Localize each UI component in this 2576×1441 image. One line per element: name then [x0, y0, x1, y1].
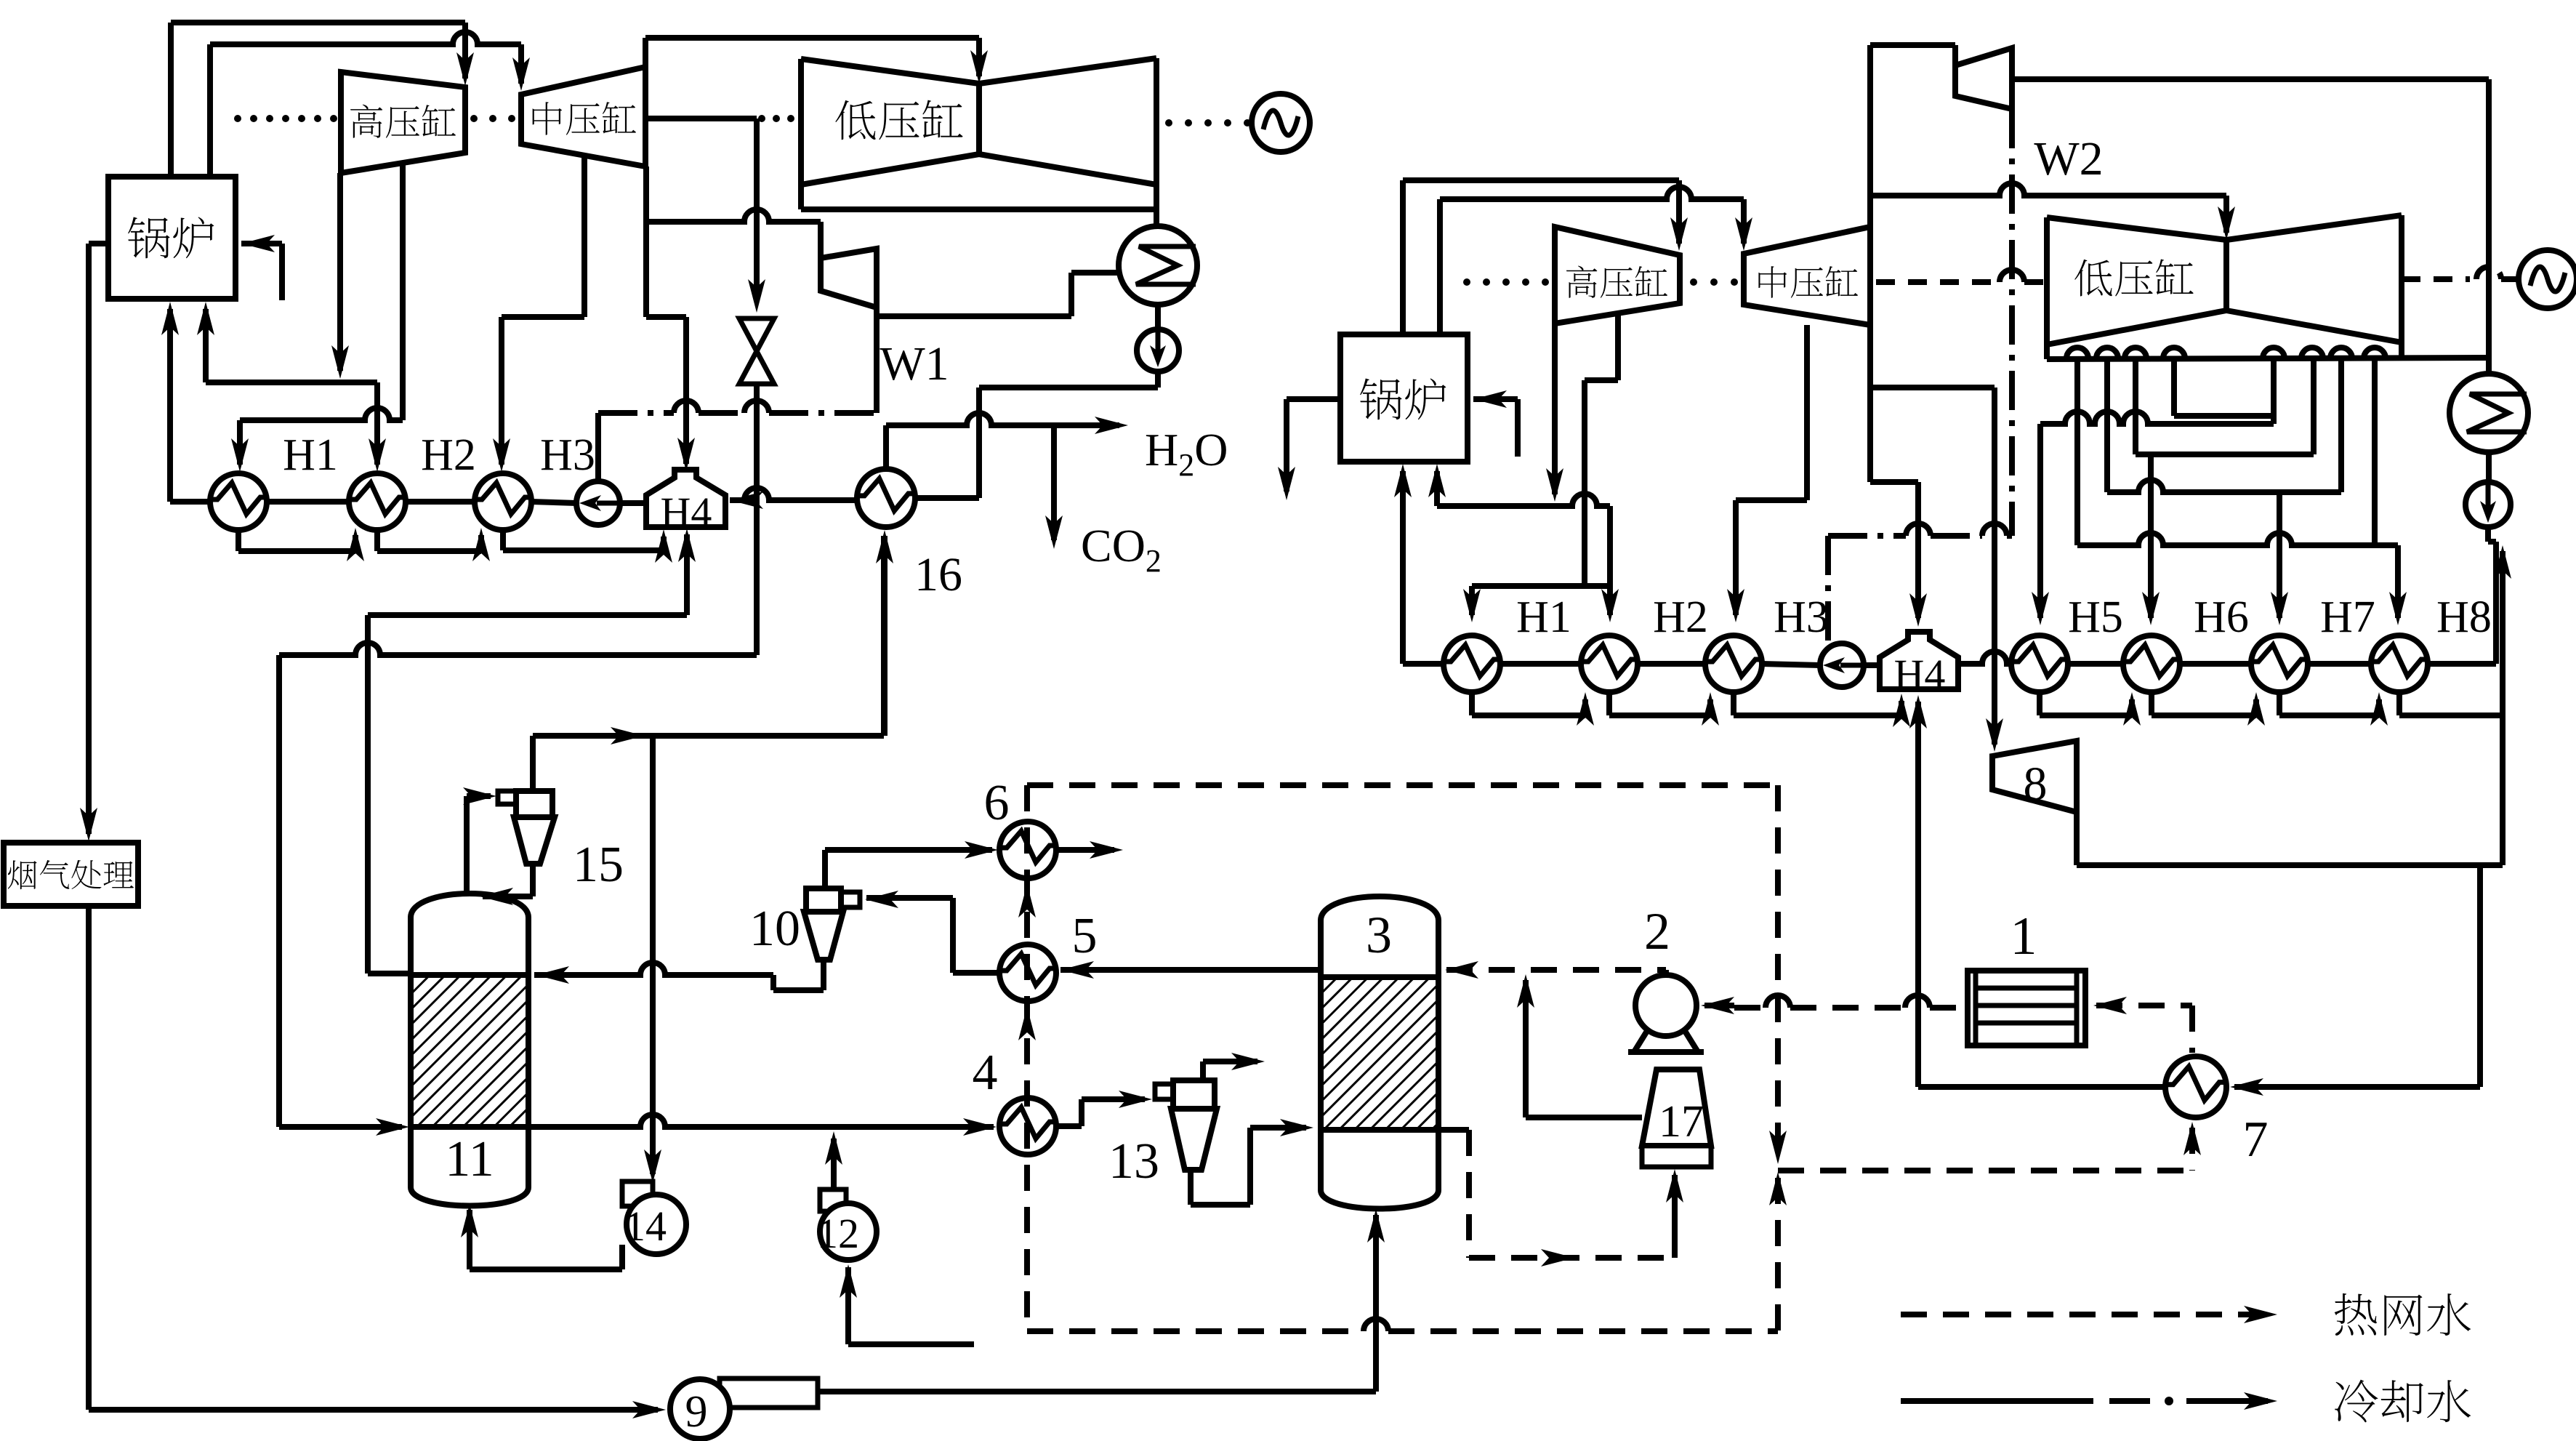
stripper column 3 shell	[1321, 896, 1438, 1209]
aux turbine W2 (top)	[1870, 42, 1955, 48]
wire W2 condensate from condenser pump	[2493, 542, 2499, 664]
wire W2 IP exhaust riser and crossover	[1867, 45, 1873, 227]
deaerator H4 W1	[646, 470, 725, 527]
wire W1 IP extraction to H3	[581, 156, 587, 317]
svg-text:3: 3	[1366, 906, 1392, 964]
condenser W2	[2450, 374, 2528, 452]
wire HX6 vent outlet	[1056, 847, 1114, 853]
wire pump 12 injection	[831, 1139, 837, 1189]
svg-text:15: 15	[573, 837, 624, 893]
wire W2 crossover to LP (hop over aux exhaust riser)	[1870, 183, 2226, 196]
wire W1 crossover IP to LP	[643, 38, 648, 67]
condenser W1	[1119, 226, 1197, 305]
svg-text:12: 12	[817, 1210, 859, 1257]
wire W1 reheat steam: boiler top to IP inlet (hop over HP line)	[207, 44, 213, 177]
cyclone 10 (tab on right)	[841, 892, 860, 907]
wire stripper 3 to HX5	[1060, 967, 1321, 973]
blower 9	[720, 1378, 818, 1408]
svg-text:H8: H8	[2436, 593, 2492, 642]
heat network heater 1 (finned)	[1968, 971, 2085, 1045]
svg-text:H6: H6	[2194, 593, 2249, 642]
svg-text:7: 7	[2243, 1112, 2269, 1168]
pump 14	[619, 1245, 625, 1269]
wire condensate pump W1 to 16	[915, 495, 979, 501]
wire lean solvent from cyclone 10 into absorber (hop over pump line)	[534, 963, 773, 975]
wire LP W1 exhaust to condenser	[1154, 209, 1159, 226]
cooling water dash-dot W2 riser	[2009, 109, 2015, 536]
svg-text:11: 11	[445, 1131, 494, 1187]
wire cyclone 15 overhead to heat exchanger 16	[530, 736, 536, 791]
svg-text:9: 9	[685, 1387, 708, 1437]
wire W1 H3 drain to H4	[500, 530, 506, 550]
wire W1 valve drain down	[754, 384, 760, 655]
heater H8 W2	[2371, 635, 2428, 692]
svg-text:H2: H2	[1653, 593, 1708, 642]
heat network dashed riser through HX4 HX5 HX6	[1024, 785, 1030, 1331]
cyclone 13	[1155, 1084, 1173, 1099]
svg-text:H1: H1	[283, 430, 338, 480]
condensate pump W2	[1820, 643, 1864, 687]
wire W1 condensate main	[170, 499, 210, 505]
wire cyclone 10 overhead to HX6	[822, 850, 828, 888]
wire flue gas treatment to blower 9	[86, 906, 92, 1410]
wire turbine 8 exhaust loop	[2074, 812, 2080, 865]
wire lean solvent into absorber top left	[368, 971, 411, 976]
wire W1 aux turbine gland to cooling line	[874, 316, 880, 413]
wire W2 HP extraction to H1 and H2	[1615, 313, 1621, 380]
wire HX4 to cyclone 13	[1056, 1123, 1082, 1129]
svg-text:6: 6	[984, 775, 1010, 831]
shaft dots left of HP W2	[1463, 278, 1470, 286]
generator W2	[2402, 276, 2470, 282]
svg-text:14: 14	[624, 1203, 667, 1250]
wire W2 steam to aux turbine 8 line	[1870, 385, 1995, 390]
wire W1 HP extraction to H2	[374, 382, 380, 465]
heater H3 W1	[475, 473, 531, 530]
generator W1	[1252, 94, 1310, 152]
wire overhead gas branch down to pump 14	[650, 736, 656, 1174]
heater H7 W2	[2251, 635, 2308, 692]
heat exchanger 5	[999, 944, 1056, 1001]
wire condenser W2 to hotwell pump	[2486, 452, 2492, 483]
wire valve drain to absorber feed (hop over lean line)	[279, 643, 757, 655]
absorber column 11 shell	[411, 894, 528, 1206]
shaft dots IP-LP W1	[758, 115, 765, 122]
condensate pump W1 (condenser)	[1137, 329, 1179, 372]
wire W1 flue gas: boiler to treatment box	[89, 241, 108, 246]
heater H3 W2	[1705, 635, 1762, 692]
heat network dashed loop top edge	[1027, 782, 1778, 788]
heat exchanger 16	[857, 469, 915, 527]
wire condenser W1 to hotwell pump	[1155, 305, 1161, 331]
wire pump 12 makeup inlet	[845, 1267, 851, 1344]
wire W2 reheat steam to IP inlet (hop)	[1437, 199, 1443, 334]
wire absorber 11 bottom inlet from pump 14	[467, 1210, 472, 1269]
svg-text:17: 17	[1659, 1097, 1704, 1147]
flue gas treatment box	[4, 843, 138, 906]
wire cyclone 13 overhead vent	[1200, 1061, 1206, 1080]
shaft dots LP-generator W1	[1165, 119, 1172, 127]
heat network dashed loop bottom edge (hop over stripper feed)	[1027, 1328, 1364, 1334]
wire W2 H1 drain to H2	[1469, 692, 1475, 715]
wire W2 aux exhaust to condenser	[2012, 76, 2489, 82]
turbine 8	[1992, 741, 2077, 812]
wire W1 HP exhaust cold reheat	[337, 173, 343, 371]
wire cyclone 15 underflow to absorber dome	[483, 894, 533, 899]
wire W2 HX7 drain up to H4 bottom	[1915, 702, 1921, 1087]
svg-text:H3: H3	[540, 430, 595, 480]
stripper 3 packing (hatched)	[1321, 977, 1438, 1130]
svg-text:H4: H4	[1894, 651, 1946, 698]
wire CO2 branch	[1051, 425, 1057, 540]
wire W2 condensate main	[1403, 661, 1444, 667]
wire W2 boiler flue outlet	[1287, 396, 1340, 402]
wire rich solvent absorber to HX4 (hop over pump line)	[528, 1115, 994, 1127]
wire W1 IP exhaust to aux turbine	[643, 166, 649, 317]
svg-text:H3: H3	[1774, 593, 1829, 642]
legend heat network water (dashed)	[1901, 1312, 2268, 1317]
wire W1 H1 drain to H2	[236, 530, 241, 551]
wire blower 9 to stripper bottom	[1373, 1215, 1379, 1392]
wire stripper side draw to 17 (dashed)	[1438, 1127, 1469, 1133]
wire stripper reflux: 17 to stripper (solid)	[1523, 980, 1529, 1117]
wire 16 top to H2O outlet (hop over pump line)	[883, 425, 889, 469]
cooling water dash-dot W2 horizontal (hops)	[1828, 533, 1906, 539]
wire W2 HP exhaust cold reheat (hop over H1/H2 tap)	[1552, 324, 1558, 494]
cyclone 15	[498, 791, 516, 804]
svg-text:8: 8	[2024, 758, 2048, 811]
svg-text:H1: H1	[1516, 593, 1571, 642]
wire W2 boiler right feed	[1473, 396, 1518, 402]
heat exchanger 6	[999, 822, 1056, 878]
wire heat network dashed through heater 1 to pump 2	[2096, 1003, 2192, 1008]
shaft dots left of HP W1	[234, 115, 241, 122]
wire 16 bottom feed	[882, 536, 887, 736]
wire flue gas into absorber 11	[279, 1124, 402, 1130]
LP W2 extraction hooks	[2066, 348, 2088, 358]
heat exchanger 7	[2165, 1056, 2226, 1117]
valve W1	[739, 318, 774, 351]
wire W2 main steam: boiler top to HP inlet	[1400, 180, 1406, 334]
IP cylinder W1	[521, 67, 645, 166]
svg-text:1: 1	[2011, 907, 2037, 966]
shaft dashed IP-LP W2	[1876, 279, 2000, 285]
svg-text:4: 4	[973, 1045, 998, 1101]
wire W2 drain return riser to pump outlet	[2500, 551, 2505, 865]
aux turbine W1	[821, 249, 877, 308]
wire W2 extraction to H8 (row4)	[2074, 358, 2080, 545]
wire heat network dashed to HX7 bottom	[1778, 1168, 2192, 1173]
wire absorber overhead to cyclone 15	[464, 796, 470, 895]
wire W2 pump line to small pump	[1825, 641, 1831, 647]
svg-text:16: 16	[914, 548, 962, 601]
svg-text:10: 10	[749, 901, 800, 957]
pump 12	[820, 1189, 846, 1211]
heater H2 W1	[349, 473, 406, 530]
shaft dots HP-IP W1	[470, 115, 478, 122]
wire W2 extraction to H6 (row2)	[2311, 358, 2317, 454]
heater H1 W1	[210, 473, 267, 530]
svg-text:H4: H4	[661, 489, 712, 536]
wire W1 HP extraction to H1 (hop over H2 line)	[400, 161, 406, 420]
wire W2 IP extraction to H3	[1804, 325, 1810, 500]
wire HX7 top dashed to heater 1	[2189, 1006, 2195, 1053]
wire W2 steam to deaerator H4 (hop by cooling line)	[1870, 479, 1918, 485]
LP cylinder W2	[2047, 215, 2402, 359]
svg-text:H2: H2	[421, 430, 476, 480]
svg-text:5: 5	[1072, 908, 1098, 964]
condensate pump W1	[576, 481, 620, 525]
svg-text:2: 2	[1644, 902, 1670, 960]
HP cylinder W2	[1555, 227, 1680, 324]
wire pump 2 suction (dashed from heat network)	[1704, 1003, 1734, 1008]
heat exchanger 4	[999, 1098, 1056, 1155]
wire W2 H2 drain to H3	[1606, 692, 1612, 715]
HP cylinder W1	[341, 72, 465, 173]
heater H5 W2	[2011, 635, 2068, 692]
svg-text:W2: W2	[2034, 132, 2103, 185]
heater H1 W2	[1444, 635, 1500, 692]
wire W2 H3 drain to H4	[1731, 692, 1736, 715]
legend cooling water (dash-dot)	[1901, 1398, 2093, 1404]
heat network dashed loop right edge lower	[1775, 1178, 1781, 1331]
wire pump 2 discharge to stripper top (dashed)	[1446, 967, 1666, 973]
wire W2 H5-H8 drains cascade	[2037, 692, 2042, 715]
wire W1 aux turbine exhaust to condenser	[874, 308, 880, 316]
IP cylinder W2	[1744, 227, 1870, 325]
heat network dashed loop right edge upper	[1775, 785, 1781, 1155]
wire W1 feed into boiler right side	[241, 241, 282, 246]
heater H6 W2	[2123, 635, 2180, 692]
heater H2 W2	[1581, 635, 1638, 692]
condensate pump W2 (condenser)	[2466, 482, 2511, 527]
cooling water dash-dot line W1	[598, 410, 674, 416]
compressor 17	[1642, 1069, 1711, 1146]
wire W1 H2 drain to H3	[374, 530, 380, 551]
wire HX5 to cyclone 10	[953, 970, 999, 976]
wire W1 heater 16 to H4 (hop over valve drain)	[730, 488, 857, 500]
wire W2 extraction to H5 (row1)	[2271, 358, 2277, 424]
svg-text:W1: W1	[880, 337, 949, 390]
wire W1 return to H4 bottom	[684, 534, 690, 615]
svg-text:H7: H7	[2320, 593, 2375, 642]
wire W2 extraction to H7 (row3)	[2104, 358, 2110, 492]
boiler W2	[1340, 334, 1468, 462]
LP cylinder W1	[801, 58, 1156, 209]
absorber 11 packing (hatched)	[411, 975, 528, 1127]
svg-text:H5: H5	[2068, 593, 2123, 642]
wire HX7 condensate out to H4 riser	[1918, 1084, 2165, 1090]
wire W1 steam to deaerator H4	[646, 314, 686, 320]
wire cyclone 13 underflow to stripper 3	[1191, 1202, 1250, 1208]
pump 2	[1635, 975, 1696, 1036]
deaerator H4 W2	[1880, 632, 1958, 689]
boiler W1	[108, 177, 236, 299]
shaft dots HP-IP W2	[1690, 278, 1697, 286]
wire W1 IP extraction to valve	[645, 116, 757, 121]
wire W1 main steam: boiler top to HP inlet	[168, 23, 174, 177]
svg-text:13: 13	[1108, 1133, 1159, 1189]
